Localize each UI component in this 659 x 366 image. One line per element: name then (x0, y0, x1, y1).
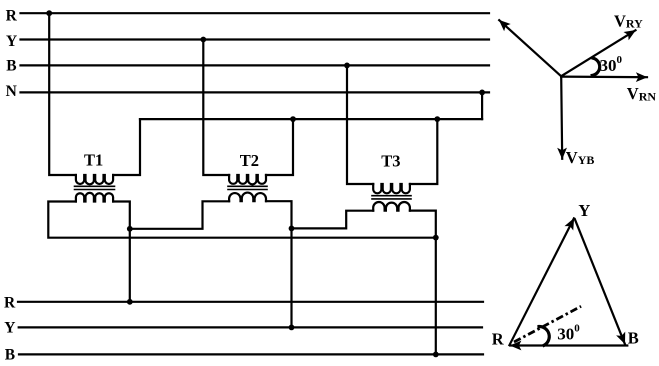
svg-text:N: N (6, 83, 17, 100)
svg-text:Y: Y (6, 33, 17, 50)
svg-text:T2: T2 (240, 151, 259, 170)
svg-text:T3: T3 (381, 152, 400, 171)
svg-text:Y: Y (4, 320, 15, 337)
svg-text:R: R (6, 8, 18, 25)
svg-text:Y: Y (578, 201, 590, 220)
svg-text:R: R (4, 295, 16, 312)
svg-text:B: B (5, 347, 15, 364)
svg-text:B: B (6, 58, 16, 75)
svg-text:T1: T1 (84, 150, 103, 169)
svg-text:B: B (628, 329, 639, 348)
svg-text:R: R (492, 330, 505, 349)
